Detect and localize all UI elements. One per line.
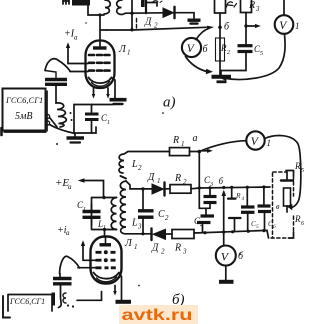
svg-text:С: С [158, 209, 165, 220]
plate stem wire with tick [100, 15, 107, 47]
diode D1 [152, 184, 164, 194]
diode D2 (b) [150, 229, 152, 241]
wire to diode D2 [132, 12, 163, 14]
capacitor C3 [209, 188, 211, 196]
node b junction dot [218, 26, 222, 30]
svg-text:4: 4 [200, 222, 203, 229]
wire W2 to vertical bus [125, 12, 132, 14]
svg-text:1: 1 [107, 120, 110, 126]
tube L1 (b) envelope [91, 237, 122, 284]
R1 box (cut at top) [215, 0, 226, 13]
svg-text:а: а [66, 229, 70, 237]
svg-text:2: 2 [165, 214, 169, 222]
ground (gen a) [74, 134, 76, 138]
svg-text:2: 2 [161, 248, 165, 256]
small T element [229, 217, 241, 219]
svg-text:1: 1 [83, 207, 86, 213]
wire lower terminal to ground [50, 125, 76, 134]
heater lead (b) [114, 286, 116, 293]
hump arc to grid3 (b) [60, 256, 80, 273]
left corner bracket [3, 296, 10, 318]
plate bar (b) [100, 243, 112, 246]
label R1 squiggle top [153, 1, 162, 3]
ground (cathode a) [110, 98, 127, 102]
grid lead row2 from left [68, 63, 88, 65]
svg-text:R: R [174, 243, 181, 254]
bottom line right part [194, 230, 269, 238]
dots [67, 304, 69, 306]
hump arc to grid3 [45, 59, 70, 71]
grid row 1 [89, 54, 110, 57]
L wire below tube [77, 292, 102, 301]
arrow right from R3 lead [248, 25, 256, 27]
grid lead row2 + ia arrow (b) [83, 243, 98, 260]
generator box (a) [3, 89, 46, 131]
curve Vb to ground arrow [186, 57, 208, 72]
capacitor C4 [205, 208, 207, 215]
L2 bottom arrow tick [121, 176, 127, 179]
svg-text:L: L [131, 159, 138, 170]
svg-text:Л: Л [124, 238, 133, 249]
junction dot [130, 28, 133, 31]
cap top stem [45, 71, 56, 80]
capacitor C5 [238, 44, 253, 47]
lower cap (b) [53, 277, 72, 280]
svg-text:4: 4 [242, 195, 245, 202]
curve node a to V1 [199, 141, 246, 152]
svg-text:R: R [294, 214, 301, 224]
coil L3 [120, 181, 126, 234]
C5 lead to ground line [221, 52, 246, 77]
vertical from node a down [199, 152, 210, 209]
watermark [119, 305, 198, 324]
coil below cap [56, 84, 66, 127]
svg-text:Д: Д [151, 243, 159, 254]
node b wire down to ground [219, 27, 221, 75]
stray scan dots [56, 143, 58, 145]
svg-text:R: R [172, 135, 179, 146]
svg-text:б: б [219, 176, 224, 186]
bottom line (b) [125, 233, 151, 235]
capacitor C2 [142, 189, 144, 210]
+Ea arrow and wire [84, 181, 104, 198]
cut capacitor / connector at top [145, 0, 147, 13]
stem tank to tube [104, 230, 106, 238]
wire from bar down and right to tank top [88, 6, 104, 16]
grid lead row3 from left [70, 71, 88, 73]
svg-text:1: 1 [295, 21, 300, 31]
svg-text:1: 1 [181, 140, 185, 148]
svg-text:а: а [68, 183, 72, 191]
long wire to node b [107, 27, 207, 30]
voltmeter Vb (a) [182, 38, 201, 57]
grid rows (b) [96, 251, 116, 254]
small scan dashes near bus [136, 19, 138, 29]
svg-text:L: L [131, 218, 138, 229]
capacitor C1 (a) [85, 113, 99, 116]
coil L1 (tank) [111, 198, 116, 230]
Vb ground [225, 266, 227, 280]
ground (circuit a) [212, 75, 232, 79]
V1 big return curve [265, 136, 301, 208]
grid row 3 [89, 69, 110, 72]
R1 label squiggle [227, 2, 237, 7]
wire L3 to D1 line [126, 181, 152, 189]
grid row 2 [89, 61, 110, 64]
R2 box (b) [166, 188, 171, 190]
dashed box [272, 173, 274, 238]
ground (diode) [188, 19, 201, 22]
svg-text:а: а [74, 34, 78, 42]
arrow right of node a [201, 150, 208, 152]
Ia arrow (a) [67, 45, 69, 64]
V1 stem up [283, 0, 285, 15]
junction dots bottom line [203, 231, 206, 234]
tank rectangle top/left/bottom [92, 198, 117, 230]
svg-text:R: R [220, 43, 227, 53]
heavy bar right of box [52, 293, 56, 306]
V1 return curve to ground w arrow [226, 34, 285, 80]
R4 stub [231, 187, 233, 197]
svg-text:5мВ: 5мВ [15, 111, 33, 122]
cathode arcs [89, 78, 112, 84]
svg-text:3: 3 [137, 223, 142, 231]
voltmeter Vb (b) [216, 246, 236, 266]
gen terminal circles [45, 114, 49, 118]
svg-text:5: 5 [256, 224, 259, 230]
junction dot on R3 lead [244, 24, 247, 27]
node at plate stem top [98, 13, 101, 16]
svg-text:Л: Л [118, 44, 127, 55]
transformer winding W2 [117, 0, 125, 15]
svg-text:6: 6 [273, 224, 276, 230]
wire R2 to top line [191, 187, 270, 189]
svg-text:а): а) [163, 95, 176, 111]
cathode lead down [112, 78, 116, 99]
capacitor C6 [263, 187, 265, 205]
svg-text:Д: Д [144, 17, 152, 28]
wire R1 to node a [190, 151, 200, 153]
cap stem down + hook [59, 284, 62, 308]
svg-text:1: 1 [157, 177, 161, 185]
R2 faint box on bus [216, 38, 225, 61]
svg-text:1: 1 [127, 49, 131, 57]
small coil scribble right of box [63, 293, 66, 303]
svg-text:2: 2 [227, 50, 230, 56]
svg-text:1: 1 [134, 243, 138, 251]
svg-text:6: 6 [301, 221, 304, 227]
svg-text:в: в [276, 202, 280, 211]
plate bar [93, 46, 107, 49]
capacitor C5 (b) [246, 187, 248, 205]
diode D2 [163, 8, 174, 17]
curve Vb to node b with arrow [196, 29, 209, 40]
R1 lead down to node b [219, 13, 221, 27]
svg-text:R: R [174, 173, 181, 184]
generator box (b) [8, 295, 52, 312]
R3 box (b) [166, 233, 173, 235]
arrowhead at node b [207, 26, 214, 30]
heater leads [94, 88, 109, 96]
svg-text:1: 1 [267, 138, 272, 148]
ground (cathode b) [116, 300, 132, 304]
svg-text:R: R [294, 161, 301, 171]
svg-text:Д: Д [147, 172, 155, 183]
cathode arcs (b) [94, 273, 120, 279]
C1 stems on left edge [91, 204, 93, 225]
cut-off label M top-left [63, 1, 69, 5]
wide capacitor left [45, 78, 67, 81]
svg-text:avtk.ru: avtk.ru [122, 307, 193, 324]
wire diode to ground [176, 13, 195, 19]
black bar top-left (cut component) [72, 0, 90, 6]
coil L2 [119, 152, 128, 174]
svg-text:3: 3 [182, 248, 187, 256]
wire coil to gen terminal [50, 118, 57, 127]
svg-text:R: R [235, 191, 241, 200]
junction dot [130, 12, 133, 15]
junction dots top line [198, 186, 201, 189]
R3 lead down [245, 13, 247, 45]
svg-text:2: 2 [138, 164, 142, 172]
R3 box (cut at top) [241, 0, 252, 13]
transformer winding W1 [104, 0, 110, 14]
svg-text:2: 2 [183, 178, 187, 186]
svg-text:R: R [248, 0, 255, 11]
svg-text:5: 5 [260, 51, 263, 57]
svg-text:5: 5 [301, 168, 304, 174]
vertical bus x=132 [131, 0, 133, 30]
cathode lead down (b) [119, 273, 122, 300]
Vb stem and arrow up to node b [223, 192, 225, 246]
tube L1 (a) envelope [86, 41, 115, 89]
svg-text:3: 3 [255, 5, 260, 13]
svg-text:ГСС6,СГ1: ГСС6,СГ1 [9, 297, 45, 306]
coil dots [70, 112, 72, 114]
capacitor C1 (b) [83, 210, 101, 213]
wire L2 to R1 [128, 151, 170, 153]
svg-text:а: а [193, 133, 198, 144]
dashed box top-right corner [286, 171, 294, 177]
R1 box (b) [170, 148, 190, 156]
voltmeter V1 (b) [246, 131, 264, 149]
R_vx inside dashed box [286, 172, 288, 180]
voltmeter V1 (a) [275, 15, 294, 34]
small mark left edge [0, 128, 3, 135]
svg-text:ГСС6,СГ1: ГСС6,СГ1 [5, 95, 43, 105]
C1 loop (a) [74, 105, 113, 134]
